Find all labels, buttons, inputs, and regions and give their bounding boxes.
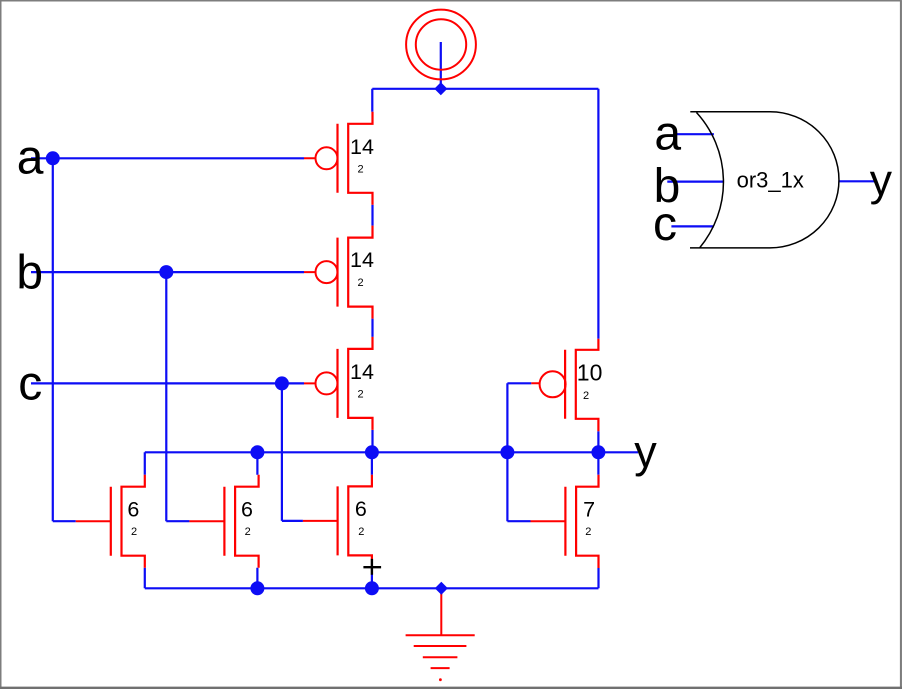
svg-text:7: 7 bbox=[583, 497, 595, 521]
svg-text:2: 2 bbox=[358, 526, 364, 538]
svg-text:2: 2 bbox=[131, 526, 137, 538]
svg-text:6: 6 bbox=[241, 497, 253, 521]
svg-text:14: 14 bbox=[350, 135, 374, 159]
svg-text:14: 14 bbox=[350, 248, 374, 272]
svg-text:2: 2 bbox=[358, 388, 364, 400]
svg-text:14: 14 bbox=[350, 360, 374, 384]
svg-text:2: 2 bbox=[358, 277, 364, 289]
svg-text:6: 6 bbox=[355, 497, 367, 521]
svg-text:2: 2 bbox=[358, 163, 364, 175]
svg-text:c: c bbox=[653, 198, 677, 251]
svg-text:2: 2 bbox=[585, 526, 591, 538]
svg-text:2: 2 bbox=[583, 390, 589, 402]
svg-text:c: c bbox=[18, 358, 42, 411]
svg-text:y: y bbox=[634, 426, 657, 477]
svg-text:b: b bbox=[16, 247, 43, 300]
svg-text:or3_1x: or3_1x bbox=[737, 168, 804, 193]
svg-text:a: a bbox=[17, 132, 44, 185]
svg-text:2: 2 bbox=[245, 526, 251, 538]
svg-text:6: 6 bbox=[127, 497, 139, 521]
svg-text:y: y bbox=[870, 156, 893, 205]
svg-text:a: a bbox=[654, 108, 681, 161]
svg-text:10: 10 bbox=[577, 360, 603, 386]
